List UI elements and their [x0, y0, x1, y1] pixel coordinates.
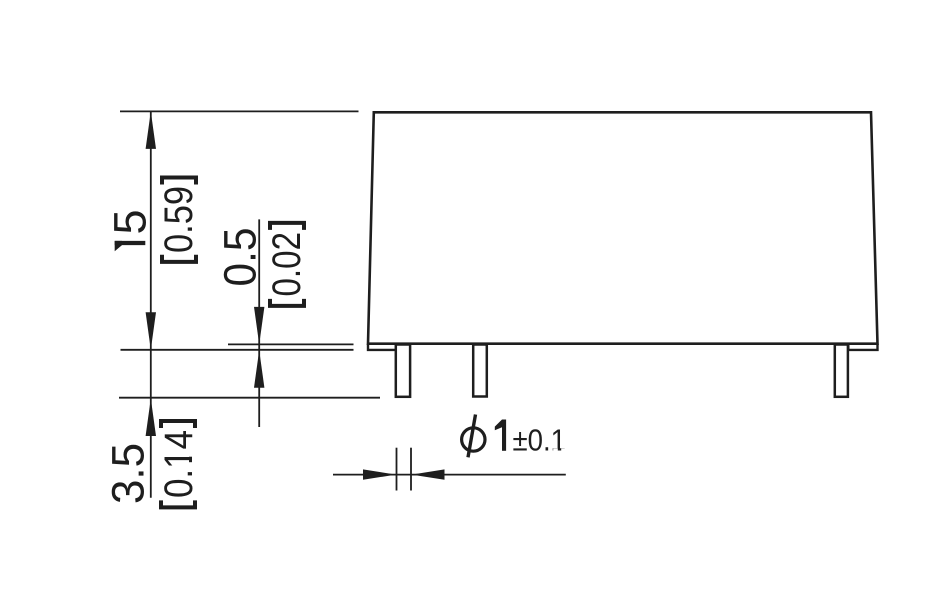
- dimension line 15 / 3.5: [150, 112, 152, 498]
- extension line: body bottom: [228, 343, 354, 345]
- extension line: pin1 left edge: [396, 448, 398, 491]
- svg-text:3.5: 3.5: [103, 443, 154, 504]
- bottom-right step: [848, 344, 877, 350]
- arrow up (3.5 bottom, outside): [146, 399, 156, 437]
- phi symbol slash: [468, 415, 476, 458]
- dimension line phi1: [333, 474, 566, 476]
- dim text 1 (drawn): [495, 420, 506, 451]
- svg-text:0.14: 0.14: [157, 430, 201, 498]
- arrow up (15 top): [146, 111, 156, 148]
- arrow up (0.5 bottom, outside): [254, 350, 264, 388]
- phi symbol circle: [462, 428, 485, 451]
- extension line: pin1 right edge: [410, 448, 412, 491]
- white patch: remove foot serif of 1 in tolerance 0.1: [553, 448, 558, 451]
- dim text 15: digit 1 (drawn, rotated): [115, 241, 146, 251]
- bracket [ of [0.59]: [162, 255, 196, 262]
- arrow left (phi1 right, outside): [412, 469, 445, 479]
- bracket ] of [0.02]: [270, 223, 304, 230]
- svg-text:5: 5: [105, 209, 156, 234]
- pin 3: [835, 345, 848, 397]
- pin 2: [473, 345, 487, 397]
- bracket [ of [0.02]: [270, 299, 304, 306]
- white patch: remove foot serif of 1 in [0.14]: [188, 450, 193, 457]
- relay body outline: [368, 112, 878, 343]
- svg-text:0.59: 0.59: [157, 186, 201, 253]
- extension line: pin bottom: [119, 397, 380, 399]
- bracket [ of [0.14]: [161, 500, 195, 507]
- bracket ] of [0.14]: [161, 421, 195, 428]
- svg-text:±0.1: ±0.1: [513, 423, 567, 458]
- arrow down (0.5 top, outside): [254, 307, 264, 345]
- bottom-left step: [368, 344, 397, 350]
- bracket ] of [0.59]: [162, 178, 196, 185]
- dimension line 0.5: [258, 219, 260, 427]
- pin 1: [396, 345, 410, 397]
- extension line: seating plane: [121, 349, 354, 351]
- svg-text:0.02: 0.02: [265, 232, 309, 297]
- extension line: body top: [120, 110, 359, 112]
- arrow down (15 bottom): [146, 312, 156, 350]
- svg-text:0.5: 0.5: [215, 228, 266, 287]
- arrow right (phi1 left, outside): [363, 469, 396, 479]
